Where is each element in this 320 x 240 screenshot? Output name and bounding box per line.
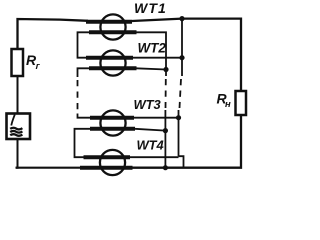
wire: WT2 bottom to left column elbow bbox=[78, 68, 91, 77]
wire: bottom wire left segment bbox=[16, 167, 83, 169]
label Rg bbox=[26, 52, 41, 72]
WT1 top conductor bbox=[86, 20, 132, 24]
wire: WT4 top right to V2 bbox=[130, 156, 179, 158]
transformer WT3 core bbox=[100, 110, 125, 135]
wire: top wire right segment bbox=[132, 19, 241, 91]
WT3 bottom conductor bbox=[90, 127, 135, 131]
node: top wire x V2 bbox=[179, 16, 184, 21]
resistor Rn body bbox=[236, 91, 247, 115]
generator wave 1 bbox=[10, 128, 22, 130]
WT2 top conductor bbox=[86, 56, 133, 60]
wire: WT1 bottom right to V1 bbox=[136, 32, 166, 76]
wire: WT3 top right to V2 junction bbox=[134, 117, 179, 119]
WT4 top conductor bbox=[84, 155, 131, 159]
wire: V2 drop to bottom wire bbox=[179, 156, 184, 168]
label WT3 bbox=[134, 97, 162, 112]
label WT4 bbox=[137, 138, 164, 153]
svg-text:WT1: WT1 bbox=[134, 0, 167, 16]
label WT1 bbox=[134, 0, 167, 16]
svg-text:н: н bbox=[225, 99, 231, 110]
wire: V2 upper solid segment bbox=[181, 19, 183, 76]
wire: top wire left segment bbox=[18, 19, 89, 49]
node: WT2 bottom x V1 bbox=[163, 67, 168, 72]
resistor Rg body bbox=[12, 49, 24, 76]
transformer WT4 core bbox=[100, 150, 125, 175]
wire: WT2 top right to V2 junction bbox=[133, 57, 182, 59]
transformer WT2 core bbox=[100, 50, 125, 75]
wire: WT3 bottom right to V1 junction bbox=[135, 129, 166, 131]
wire: WT1 bottom to left column bbox=[78, 32, 91, 57]
svg-text:WT3: WT3 bbox=[134, 97, 162, 112]
wire: V2 dashed continuation bbox=[180, 79, 182, 108]
wire: bottom wire right segment bbox=[132, 115, 241, 168]
node: bottom wire x V1 bbox=[163, 165, 168, 170]
label WT2 bbox=[138, 41, 167, 56]
svg-text:WT4: WT4 bbox=[137, 138, 164, 153]
svg-text:WT2: WT2 bbox=[138, 41, 167, 56]
wire: left column to WT3 top elbow bbox=[78, 114, 92, 118]
WT1 bottom conductor bbox=[89, 30, 137, 34]
node: WT3 top x V2 bbox=[176, 115, 181, 120]
wire: Rg to generator bbox=[17, 76, 19, 114]
wire: left column dashed continuation bbox=[77, 80, 79, 112]
wire: V1 dashed continuation bbox=[165, 79, 167, 108]
wire: WT2 bottom right to V1 junction bbox=[136, 68, 166, 69]
WT3 top conductor bbox=[90, 116, 134, 120]
generator wave 2 bbox=[10, 131, 22, 133]
wire: generator to bottom wire bbox=[16, 139, 18, 168]
WT4 bottom conductor bbox=[80, 166, 133, 170]
node: WT3 bottom x V1 bbox=[163, 128, 168, 133]
generator diagonal stroke bbox=[11, 115, 15, 126]
wire: V2 lower solid segment bbox=[178, 110, 180, 156]
node: WT2 top x V2 bbox=[179, 55, 184, 60]
label Rn bbox=[217, 91, 232, 111]
generator wave 3 bbox=[10, 134, 22, 136]
WT2 bottom conductor bbox=[89, 66, 137, 70]
transformer WT1 core bbox=[100, 14, 125, 39]
generator G box bbox=[7, 114, 31, 140]
wire: V1 lower solid segment bbox=[164, 110, 166, 168]
wire: WT3 bottom to WT4 top left link bbox=[75, 129, 92, 157]
